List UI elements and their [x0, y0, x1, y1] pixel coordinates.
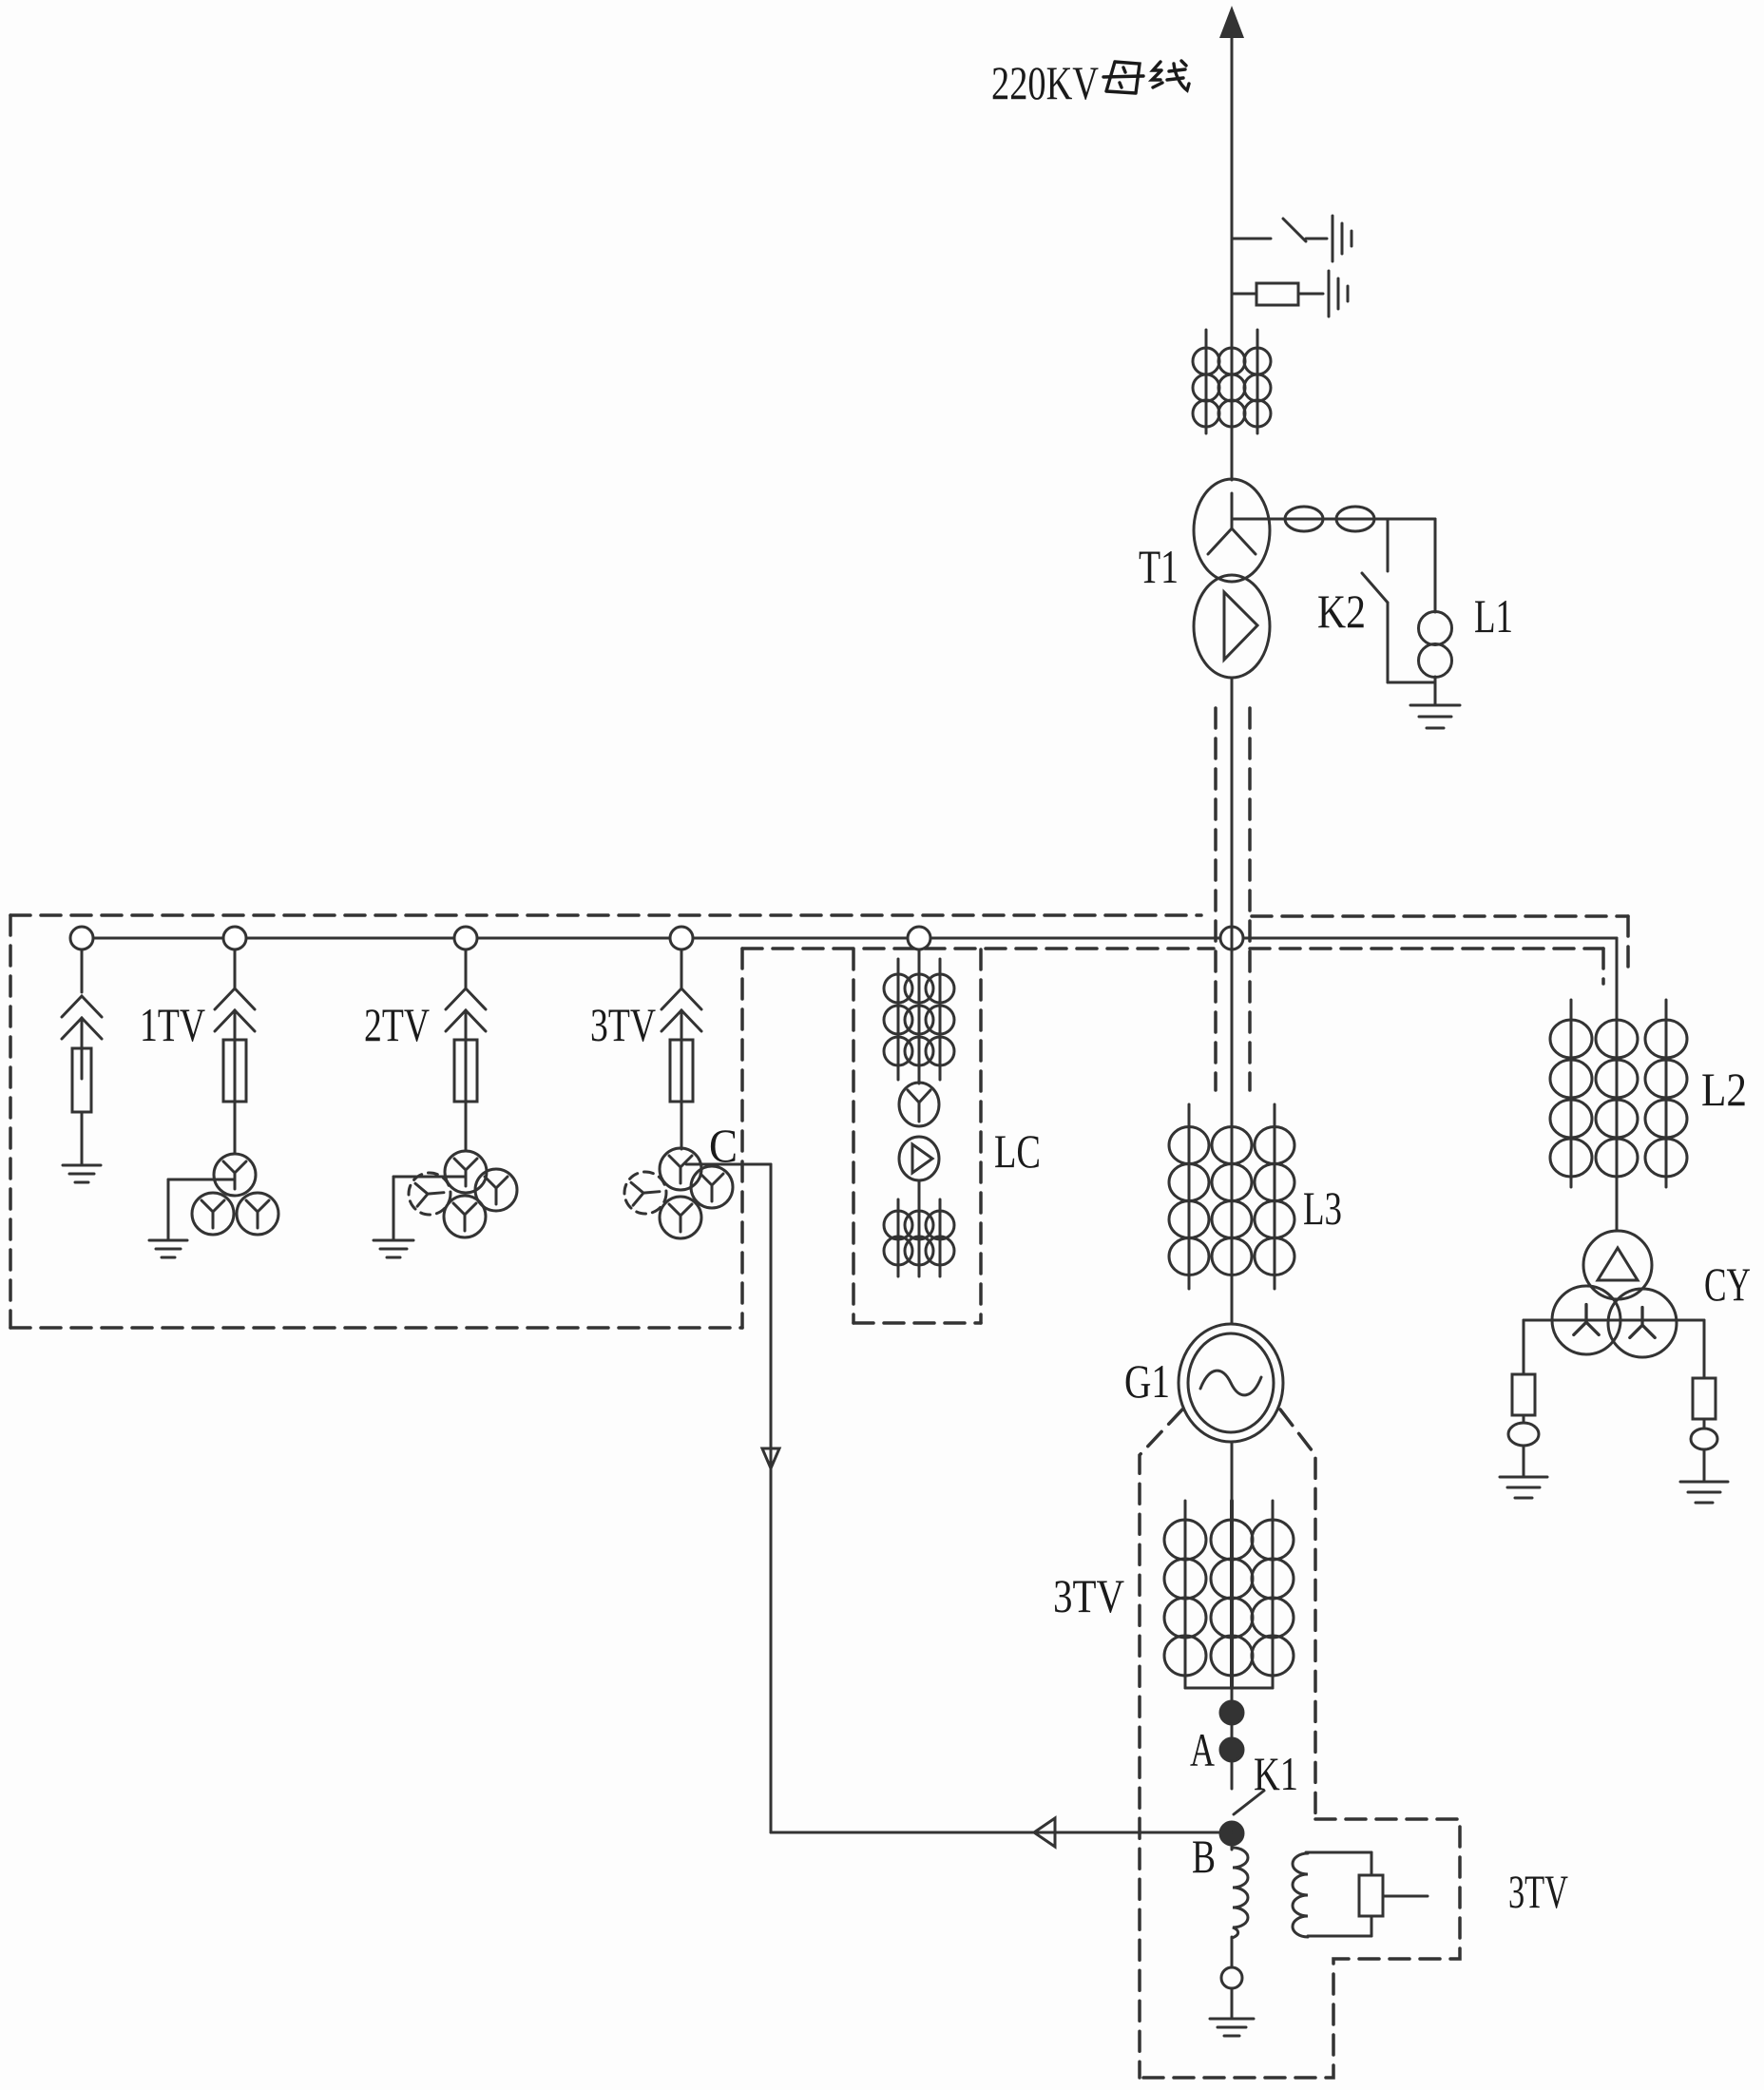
svg-text:K2: K2 — [1317, 585, 1366, 638]
svg-text:3TV: 3TV — [1053, 1569, 1124, 1622]
svg-text:CY: CY — [1704, 1257, 1751, 1311]
svg-text:C: C — [709, 1119, 738, 1172]
svg-text:3TV: 3TV — [590, 998, 656, 1051]
svg-text:K1: K1 — [1254, 1747, 1298, 1800]
svg-text:L2: L2 — [1701, 1063, 1747, 1116]
svg-text:A: A — [1190, 1723, 1215, 1776]
svg-text:G1: G1 — [1124, 1354, 1170, 1408]
svg-text:2TV: 2TV — [364, 998, 430, 1051]
svg-text:L1: L1 — [1474, 589, 1513, 642]
svg-text:B: B — [1192, 1830, 1216, 1883]
svg-text:3TV: 3TV — [1508, 1865, 1568, 1918]
svg-text:1TV: 1TV — [140, 998, 205, 1051]
svg-text:220KV: 220KV — [991, 56, 1099, 109]
svg-text:T1: T1 — [1139, 540, 1179, 593]
svg-text:LC: LC — [994, 1124, 1041, 1178]
svg-text:L3: L3 — [1303, 1181, 1342, 1235]
